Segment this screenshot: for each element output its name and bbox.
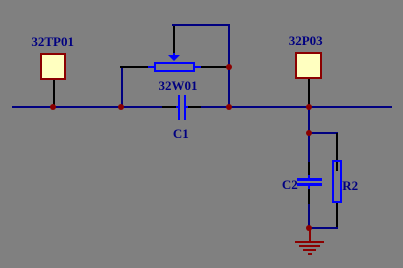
capacitor C1 right plate bbox=[184, 95, 186, 120]
ground bar 4 bbox=[308, 253, 313, 255]
wire C2 bottom vertical bbox=[308, 204, 310, 229]
capacitor C1 right pin bbox=[188, 106, 202, 108]
junction dot at 32TP01 / main net bbox=[50, 104, 56, 110]
potentiometer 32W01 left stub bbox=[148, 66, 155, 69]
wire R2 top branch horizontal bbox=[309, 132, 338, 134]
label C1 bbox=[151, 127, 211, 140]
resistor R2 top pin bbox=[336, 133, 338, 171]
label 32W01 bbox=[148, 79, 208, 92]
test point 32TP01 body bbox=[40, 53, 66, 80]
ground stem bbox=[309, 228, 312, 241]
label 32TP01 bbox=[23, 35, 83, 48]
wire main net right segment bbox=[201, 106, 392, 108]
potentiometer 32W01 right stub bbox=[195, 66, 201, 69]
potentiometer 32W01 wiper stub bbox=[173, 53, 175, 56]
resistor R2 bottom pin bbox=[336, 203, 338, 228]
junction dot pot right vertical / main net bbox=[226, 104, 232, 110]
capacitor C2 bottom stub bbox=[308, 186, 310, 189]
potentiometer 32W01 wiper arrow bbox=[168, 55, 180, 61]
wire main net left segment bbox=[12, 106, 162, 108]
capacitor C1 left plate bbox=[178, 95, 180, 120]
ground bar 3 bbox=[303, 249, 316, 251]
potentiometer 32W01 body bbox=[154, 62, 195, 72]
ground bar 1 bbox=[295, 241, 325, 243]
junction dot bottom branch bbox=[306, 225, 312, 231]
junction dot at pot right pin bbox=[226, 64, 232, 70]
ground bar 2 bbox=[299, 245, 320, 247]
capacitor C2 top pin bbox=[308, 162, 310, 175]
potentiometer 32W01 right pin bbox=[201, 66, 230, 69]
capacitor C2 top stub bbox=[308, 175, 310, 178]
plug 32P03 body bbox=[295, 52, 322, 79]
potentiometer 32W01 left pin bbox=[120, 66, 148, 69]
plug 32P03 pin bbox=[308, 79, 310, 106]
wire branch vertical D4-D5 bbox=[308, 107, 310, 133]
junction dot pot left vertical / main net bbox=[118, 104, 124, 110]
capacitor C1 left pin bbox=[162, 106, 176, 108]
wire pot right vertical bbox=[228, 24, 230, 108]
wire pot left vertical bbox=[121, 68, 123, 107]
wire bottom branch horizontal bbox=[309, 227, 338, 229]
capacitor C2 top plate bbox=[297, 178, 322, 181]
potentiometer 32W01 wiper pin bbox=[173, 24, 175, 53]
label 32P03 bbox=[276, 34, 336, 47]
wire branch vertical to C2 bbox=[308, 133, 310, 162]
capacitor C1 right stub bbox=[186, 106, 188, 108]
junction dot branch split bbox=[306, 130, 312, 136]
capacitor C2 bottom pin bbox=[308, 189, 310, 204]
capacitor C2 bottom plate bbox=[297, 183, 322, 186]
label R2 bbox=[342, 179, 372, 192]
wire pot top horizontal bbox=[172, 24, 230, 26]
test point 32TP01 pin bbox=[53, 80, 55, 106]
label C2 bbox=[260, 178, 320, 191]
capacitor C1 left stub bbox=[176, 106, 178, 108]
resistor R2 body bbox=[332, 160, 342, 203]
junction dot 32P03 / main net bbox=[306, 104, 312, 110]
